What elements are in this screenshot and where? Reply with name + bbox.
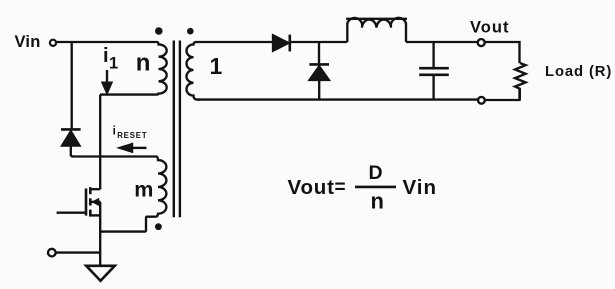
label m [134,178,153,202]
source vertical wire [99,202,101,265]
svg-text:i: i [103,45,109,67]
svg-text:n: n [136,50,151,77]
diode D-forward (pointing right) [273,35,290,52]
reset winding m [100,157,166,232]
transformer core [174,41,180,218]
wire branch to reset diode [71,42,73,128]
transformer primary winding n [100,42,167,95]
svg-text:Load (R): Load (R) [545,64,612,80]
terminal gate-drive lower [48,249,56,257]
svg-text:Vin: Vin [403,176,438,199]
terminal Vin [50,40,56,46]
label Load (R) [545,64,612,80]
diode D-reset (cathode up) [61,129,81,155]
equation Vout = D/n Vin [288,162,438,214]
svg-text:1: 1 [109,55,118,73]
label Vin [15,33,41,51]
arrow iRESET (leftward) [116,143,147,154]
svg-text:Vout: Vout [288,176,335,199]
svg-text:m: m [134,178,153,202]
freewheel diode (cathode up) [309,42,330,100]
ground [86,266,115,281]
resistor Load [515,63,526,100]
svg-text:n: n [371,189,384,214]
label Vout [470,19,509,37]
wire forward diode to inductor [290,41,348,43]
polarity dot primary [155,27,163,35]
bottom rail secondary side [198,98,478,100]
wire lower terminal to load bottom [485,89,520,100]
wire secondary top to forward diode [195,41,272,43]
svg-text:Vout: Vout [470,19,509,37]
label n [136,50,151,77]
arrow i1 (downward) [101,70,113,96]
capacitor C [419,42,449,100]
svg-text:=: = [335,177,346,198]
label 1 [210,53,223,79]
terminal Vout [478,39,485,46]
svg-text:RESET: RESET [117,131,147,140]
wire Vout to load [485,42,520,63]
fraction bar [355,186,396,189]
svg-text:Vin: Vin [15,33,41,51]
wire Vin to primary winding [57,41,157,43]
polarity dot reset winding [155,223,162,230]
label i1 [103,45,118,73]
wire lower terminal to source [56,251,100,253]
svg-text:i: i [113,126,116,138]
svg-text:1: 1 [210,53,223,79]
inductor L (humps below top bar) [346,18,407,42]
MOSFET Q (n-channel) [86,187,101,216]
polarity dot secondary [187,28,194,35]
wire inductor to Vout terminal [406,41,478,43]
gate lead [57,212,85,214]
wire n-winding bottom to MOSFET drain [99,95,101,190]
terminal output lower [478,97,485,104]
label iRESET [113,126,148,140]
svg-text:D: D [369,162,383,184]
wire reset diode to junction (iRESET net) [71,154,157,156]
transformer secondary winding 1 [187,42,201,100]
